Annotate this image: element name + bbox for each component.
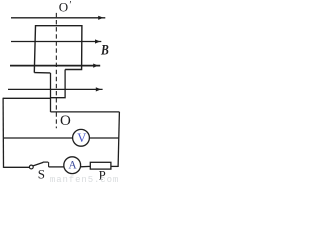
svg-text:V: V [77, 131, 86, 145]
voltmeter U1 circle [73, 129, 90, 146]
wire: voltmeter branch right [89, 137, 119, 139]
wire: bottom left to switch [4, 166, 30, 168]
wire: rheostat to right edge [111, 165, 118, 167]
wire: switch to ammeter [49, 166, 64, 168]
wire: voltmeter branch left [3, 137, 72, 139]
svg-text:A: A [68, 159, 77, 171]
axis O'O (dashed) [55, 13, 57, 128]
wire: middle wire to coil [51, 111, 120, 113]
svg-text:B: B [100, 43, 109, 59]
field line B1 [11, 16, 105, 20]
coil body (rectangle, open at bottom middle) [34, 26, 82, 73]
switch S contact [43, 161, 48, 163]
switch S lever [33, 162, 43, 166]
coil right lead [51, 70, 66, 98]
svg-text:′: ′ [69, 0, 71, 11]
wire: circuit right edge [118, 112, 119, 167]
svg-text:S: S [38, 167, 45, 182]
field line B4 [8, 87, 103, 91]
coil bottom-left edge [34, 72, 50, 74]
wire: ammeter to rheostat [80, 165, 90, 167]
wire: circuit left edge [2, 98, 4, 168]
svg-text:O: O [59, 0, 68, 14]
ammeter U2 circle [64, 157, 81, 174]
svg-text:manfen5.com: manfen5.com [50, 175, 119, 183]
rheostat P (resistor box) [90, 162, 111, 169]
svg-text:O: O [60, 113, 71, 129]
field line B3 [10, 64, 100, 68]
coil left lead [50, 73, 52, 112]
wire: circuit top edge [3, 97, 50, 99]
field line B2 [11, 39, 101, 43]
switch S pivot [29, 165, 33, 169]
